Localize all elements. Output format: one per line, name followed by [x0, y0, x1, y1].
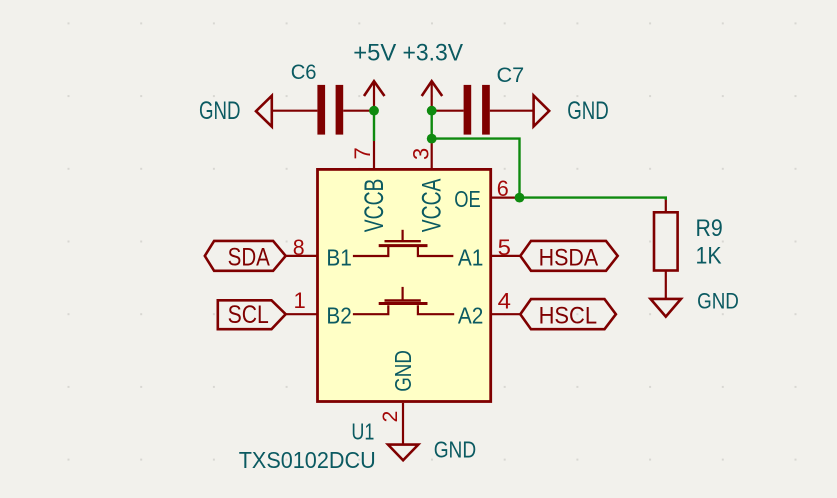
svg-text:+5V: +5V — [353, 39, 396, 66]
svg-text:3: 3 — [409, 148, 434, 160]
svg-text:6: 6 — [497, 176, 509, 201]
svg-text:GND: GND — [390, 350, 416, 392]
svg-text:4: 4 — [498, 289, 511, 314]
svg-text:TXS0102DCU: TXS0102DCU — [239, 447, 376, 473]
svg-text:1: 1 — [294, 288, 306, 313]
svg-text:U1: U1 — [351, 418, 374, 444]
svg-text:A1: A1 — [458, 244, 484, 270]
svg-text:R9: R9 — [696, 215, 723, 242]
svg-text:A2: A2 — [458, 302, 484, 328]
svg-text:C7: C7 — [497, 64, 525, 87]
svg-text:GND: GND — [199, 97, 241, 125]
svg-text:7: 7 — [350, 147, 375, 159]
svg-text:HSDA: HSDA — [539, 244, 599, 271]
svg-text:2: 2 — [379, 411, 402, 423]
svg-text:GND: GND — [697, 289, 739, 314]
svg-text:+3.3V: +3.3V — [403, 39, 464, 66]
svg-text:GND: GND — [434, 436, 477, 462]
svg-text:B2: B2 — [326, 302, 352, 328]
svg-text:1K: 1K — [696, 243, 722, 270]
svg-text:B1: B1 — [326, 244, 352, 270]
svg-text:SDA: SDA — [228, 243, 271, 271]
svg-text:HSCL: HSCL — [539, 302, 598, 329]
svg-text:VCCB: VCCB — [359, 179, 389, 233]
svg-text:GND: GND — [567, 97, 609, 125]
svg-text:VCCA: VCCA — [417, 179, 447, 233]
svg-text:5: 5 — [498, 235, 511, 260]
svg-text:SCL: SCL — [228, 301, 269, 329]
svg-text:C6: C6 — [291, 61, 317, 84]
svg-text:OE: OE — [454, 186, 481, 212]
svg-text:8: 8 — [293, 235, 305, 260]
